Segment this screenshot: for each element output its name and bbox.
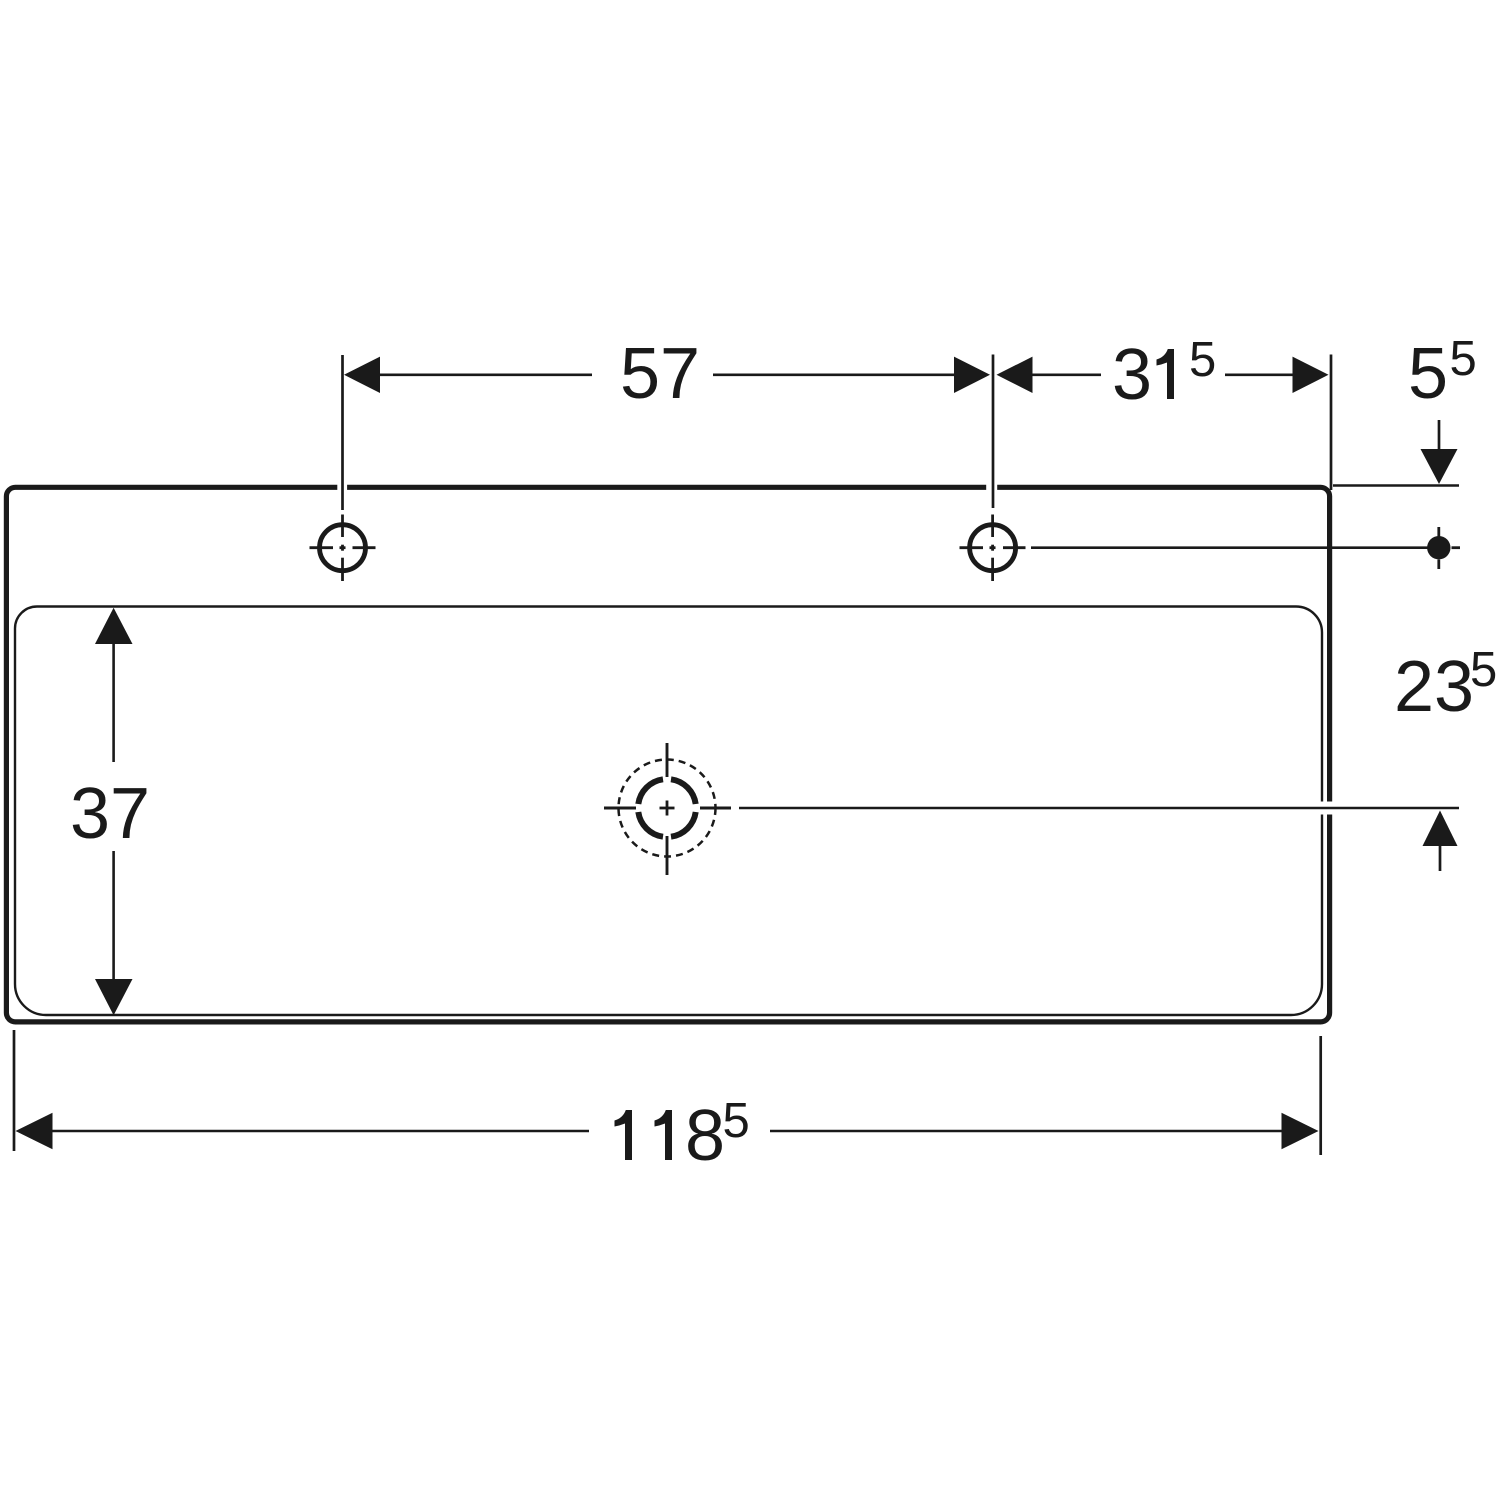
drain centre cross [660,801,675,816]
extension line above left tap hole [341,355,344,510]
reference line drain centre to right [739,807,1459,810]
washbasin inner basin rim [15,607,1322,1016]
arrowhead 31.5 left [997,357,1033,393]
svg-text:5: 5 [1189,333,1216,387]
extension line above right tap hole [992,355,995,509]
arrowhead 57 left [344,357,380,393]
arrow 23.5 up [1423,811,1458,847]
gap in outer edge at drain centre line [1316,802,1337,815]
svg-text:5: 5 [723,1094,750,1148]
reference line top right edge [1333,484,1459,487]
svg-text:37: 37 [70,774,150,854]
arrowhead 118.5 left [16,1113,53,1150]
arrowhead 118.5 right [1282,1113,1319,1150]
tap hole left circle [320,525,366,571]
reference dot tap hole level [1427,536,1450,559]
washbasin outer edge [6,487,1329,1022]
arrowhead 37 down [95,979,133,1015]
svg-text:3: 3 [1112,335,1152,415]
extension line bottom right [1319,1036,1322,1155]
extension line bottom left [13,1030,16,1151]
drain dashed outline [619,760,716,857]
arrowhead 57 right [954,357,990,393]
svg-text:57: 57 [620,334,700,414]
arrow 5.5 down [1438,420,1441,452]
gap in outer edge at middle extension line [986,483,997,492]
drain hole arcs [638,779,695,836]
dimension line 118.5 [52,1130,1283,1133]
dimension line 57 [379,373,956,376]
extension line above right edge [1330,355,1333,491]
label 118.5 [615,1110,633,1160]
reference line tap hole centre to right [1031,546,1448,549]
gap in outer edge at left extension line [337,483,347,492]
dimension line 37 [112,642,115,981]
svg-text:8: 8 [685,1096,725,1176]
reference dot ticks [1439,527,1460,569]
arrowhead 37 up [95,608,133,644]
tap hole right centre mark [960,515,1026,582]
tap hole left centre mark [310,515,376,582]
svg-text:23: 23 [1394,647,1474,727]
tap hole right circle [970,525,1016,571]
svg-text:5: 5 [1408,334,1448,414]
svg-text:5: 5 [1470,643,1497,697]
dimension line 31.5 [1032,373,1294,376]
svg-text:5: 5 [1450,332,1477,386]
drain centre mark dashes [604,743,731,875]
arrowhead 31.5 right [1293,357,1329,393]
